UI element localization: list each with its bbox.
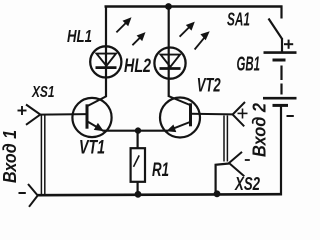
wire top supply rail (105, 5, 283, 7)
node emitter junction (135, 127, 141, 133)
svg-text:Вход 1: Вход 1 (0, 130, 20, 183)
connector XS2 plus sign (238, 109, 248, 119)
node R1 bottom junction (135, 191, 142, 198)
transistor VT1 (72, 96, 111, 137)
connector XS1 double line (41, 116, 44, 196)
transistor VT2 (160, 96, 200, 137)
connector XS1 minus sign (19, 192, 26, 194)
svg-text:SA1: SA1 (227, 8, 250, 29)
wire XS2 bottom contact to rail (216, 164, 229, 195)
wire bottom return rail (38, 194, 283, 195)
LED HL1 (90, 46, 121, 77)
wire VT1 base to XS1 (40, 113, 87, 116)
connector XS2 minus sign (245, 159, 250, 161)
LED HL2 (154, 48, 185, 79)
battery GB1 plus sign (284, 40, 293, 49)
svg-text:HL1: HL1 (67, 26, 92, 46)
svg-text:HL2: HL2 (124, 56, 151, 77)
battery GB1 dash 2 (280, 84, 282, 95)
wire HL1 anode drop (105, 6, 107, 98)
resistor R1 (131, 148, 145, 182)
HL2 emission arrow 1 (180, 22, 195, 37)
svg-text:R1: R1 (152, 159, 169, 181)
wire R1 to bottom rail (137, 182, 139, 195)
wire switch to battery (281, 38, 283, 53)
switch SA1 (269, 6, 283, 39)
HL1 emission arrow 2 (132, 32, 145, 45)
HL1 emission arrow 1 (116, 17, 131, 32)
wire common emitter rail (103, 130, 168, 132)
battery GB1 minus sign (287, 115, 294, 117)
wire battery negative down (280, 106, 282, 196)
svg-text:VT1: VT1 (79, 138, 105, 159)
battery GB1 cell 1 short plate (273, 59, 286, 62)
connector XS2 double line (224, 116, 227, 162)
battery GB1 dash 1 (280, 66, 282, 81)
battery GB1 cell 2 long plate (263, 97, 297, 100)
wire HL2 anode drop (168, 7, 170, 98)
svg-text:Вход 2: Вход 2 (249, 102, 270, 157)
svg-text:XS2: XS2 (234, 174, 260, 194)
connector XS2 top contact (233, 102, 245, 126)
connector XS1 top contact (26, 105, 40, 125)
connector XS1 plus sign (18, 106, 27, 115)
connector XS1 bottom contact (28, 184, 38, 207)
connector XS2 bottom contact (229, 152, 244, 176)
svg-text:GB1: GB1 (237, 54, 261, 76)
HL2 emission arrow 2 (195, 31, 210, 49)
wire VT2 base to XS2 (191, 113, 233, 116)
battery GB1 cell 1 long plate (264, 51, 297, 54)
wire emitter junction to R1 (137, 131, 139, 149)
svg-text:VT2: VT2 (197, 75, 221, 97)
svg-text:XS1: XS1 (31, 84, 54, 101)
node junction top rail / HL2 branch (165, 3, 172, 10)
battery GB1 cell 2 short plate (273, 104, 289, 107)
node XS2 bottom junction (214, 190, 221, 197)
